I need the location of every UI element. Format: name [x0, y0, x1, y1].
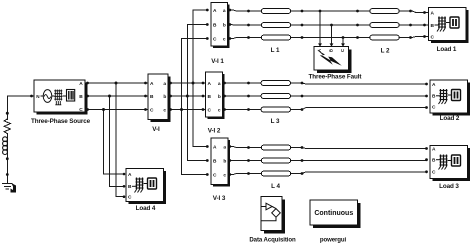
svg-text:L 3: L 3 — [271, 118, 280, 125]
svg-text:V-I 1: V-I 1 — [211, 58, 224, 65]
svg-text:V-I: V-I — [152, 126, 160, 133]
svg-text:A: A — [317, 49, 322, 52]
svg-text:c: c — [163, 108, 166, 113]
svg-text:C: C — [208, 107, 212, 113]
svg-text:b: b — [223, 22, 226, 28]
svg-text:b: b — [223, 158, 226, 164]
svg-text:B: B — [79, 94, 83, 100]
svg-text:L 2: L 2 — [381, 48, 390, 55]
svg-text:c: c — [223, 173, 226, 178]
svg-text:a: a — [218, 82, 221, 87]
svg-text:C: C — [150, 107, 154, 113]
svg-text:B: B — [432, 94, 436, 100]
svg-text:Three-Phase Source: Three-Phase Source — [31, 118, 91, 125]
svg-text:B: B — [213, 22, 217, 28]
svg-text:powergui: powergui — [320, 237, 347, 243]
svg-text:B: B — [128, 184, 132, 190]
svg-text:V-I 3: V-I 3 — [213, 195, 226, 202]
svg-text:Load 1: Load 1 — [437, 46, 457, 53]
svg-text:b: b — [163, 94, 166, 100]
svg-text:A: A — [213, 144, 217, 150]
svg-text:B: B — [150, 94, 154, 100]
svg-text:A: A — [150, 81, 154, 87]
svg-text:c: c — [223, 37, 226, 42]
svg-text:Load 2: Load 2 — [440, 115, 460, 122]
svg-text:C: C — [213, 36, 217, 42]
svg-text:Three-Phase Fault: Three-Phase Fault — [309, 74, 363, 81]
svg-text:B: B — [431, 23, 435, 29]
svg-text:A: A — [432, 82, 436, 88]
svg-text:A: A — [128, 172, 132, 178]
svg-text:C: C — [340, 49, 345, 52]
svg-text:B: B — [329, 49, 334, 52]
svg-text:Data Acquisition: Data Acquisition — [249, 237, 296, 243]
svg-text:Continuous: Continuous — [314, 210, 353, 217]
svg-text:A: A — [208, 81, 212, 87]
svg-text:A: A — [79, 81, 83, 87]
svg-text:C: C — [128, 195, 132, 201]
svg-text:a: a — [223, 9, 226, 14]
svg-text:C: C — [213, 172, 217, 178]
svg-text:A: A — [431, 10, 435, 16]
svg-text:C: C — [431, 34, 435, 40]
svg-text:B: B — [208, 94, 212, 100]
svg-text:Load 3: Load 3 — [439, 183, 459, 190]
svg-text:C: C — [432, 105, 436, 111]
svg-text:a: a — [223, 145, 226, 150]
svg-text:b: b — [218, 94, 221, 100]
svg-text:c: c — [218, 108, 221, 113]
svg-text:B: B — [432, 158, 436, 164]
svg-text:L 4: L 4 — [271, 183, 280, 190]
svg-text:A: A — [213, 8, 217, 14]
svg-text:L 1: L 1 — [271, 47, 280, 54]
svg-text:A: A — [432, 146, 436, 152]
svg-text:B: B — [213, 158, 217, 164]
svg-text:C: C — [79, 107, 83, 113]
svg-text:C: C — [432, 170, 436, 176]
svg-text:V-I 2: V-I 2 — [208, 128, 221, 135]
svg-text:Load 4: Load 4 — [136, 205, 156, 212]
svg-text:a: a — [163, 82, 166, 87]
